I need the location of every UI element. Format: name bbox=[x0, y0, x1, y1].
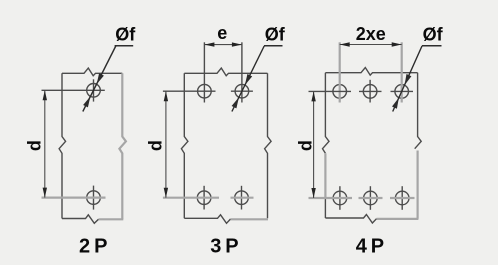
svg-text:Øf: Øf bbox=[265, 25, 286, 45]
4P top hole 3 crosshair bbox=[391, 90, 414, 92]
3P outline: top edge with break bbox=[184, 68, 267, 76]
4P outline: right edge lower part (light) bbox=[417, 151, 419, 219]
3P bottom-right hole bbox=[235, 186, 249, 210]
2P dimension d: label d bbox=[25, 140, 45, 151]
4P bottom hole 3 bbox=[395, 186, 409, 210]
3P leader underline bbox=[264, 45, 283, 47]
3P outline: bottom edge left part with break bbox=[184, 215, 230, 224]
3P dimension e: label e bbox=[217, 23, 227, 43]
4P bottom hole 2 crosshair (light) bbox=[359, 197, 383, 199]
3P dimension d: dimension line with arrows bbox=[164, 91, 168, 198]
4P top hole 1 bbox=[333, 85, 347, 99]
3P caption bbox=[210, 236, 238, 258]
3P dimension d: extension line top bbox=[163, 90, 216, 92]
4P caption bbox=[356, 236, 384, 258]
2P leader line to top hole bbox=[83, 46, 116, 112]
2P dimension d: dimension line with arrows bbox=[43, 90, 47, 197]
svg-text:2 P: 2 P bbox=[79, 236, 107, 258]
2P dimension d: extension line top bbox=[42, 89, 105, 91]
2P outline: top edge with break bbox=[62, 68, 122, 76]
3P leader line to top-right hole bbox=[232, 46, 265, 112]
2P caption bbox=[79, 236, 107, 258]
3P top-right hole crosshair bbox=[231, 90, 253, 92]
2P hole diameter label Of bbox=[115, 25, 136, 45]
3P top-right hole bbox=[235, 84, 249, 98]
4P outline: left edge upper part with break bbox=[323, 73, 330, 154]
2P outline: right edge (light) with break bbox=[119, 73, 126, 219]
svg-text:d: d bbox=[146, 140, 166, 151]
svg-text:3 P: 3 P bbox=[210, 236, 238, 258]
2P outline: bottom edge left part with break bbox=[62, 215, 99, 224]
4P dimension d: dimension line with arrows bbox=[311, 91, 315, 198]
4P leader line to top hole 3 bbox=[392, 46, 422, 112]
4P bottom hole 1 bbox=[333, 186, 347, 210]
2P outline: bottom edge right part (light) bbox=[99, 218, 124, 220]
2P outline: left edge with break bbox=[59, 73, 66, 218]
4P hole diameter label Of bbox=[423, 25, 444, 45]
3P bottom-left hole bbox=[197, 186, 211, 210]
3P dimension d: label d bbox=[146, 140, 166, 151]
4P top hole 2 crosshair bbox=[359, 90, 382, 92]
3P bottom-right hole crosshair (light) bbox=[231, 197, 254, 199]
4P outline: bottom edge right part (light) bbox=[377, 218, 419, 220]
4P leader underline bbox=[422, 45, 442, 47]
3P dimension e: dimension line with arrows bbox=[204, 42, 242, 46]
3P dimension d: extension line bottom (light) bbox=[163, 197, 219, 199]
4P outline: top edge with break bbox=[325, 68, 417, 76]
svg-text:2xe: 2xe bbox=[356, 24, 386, 44]
4P bottom hole 2 bbox=[364, 186, 378, 210]
3P hole diameter label Of bbox=[265, 25, 286, 45]
4P outline: left edge middle part (light) bbox=[324, 153, 326, 198]
4P top hole 2 bbox=[363, 80, 377, 103]
4P outline: left edge lower part bbox=[324, 199, 326, 219]
svg-text:d: d bbox=[25, 140, 45, 151]
4P dimension 2xe: extension lines (light) through holes 1 and 3 bbox=[340, 42, 402, 102]
3P dimension e: extension lines through top holes bbox=[204, 42, 242, 102]
2P leader underline bbox=[115, 45, 134, 47]
2P top hole bbox=[87, 79, 101, 101]
4P dimension d: label d bbox=[295, 140, 315, 151]
svg-text:4 P: 4 P bbox=[356, 236, 384, 258]
3P outline: bottom edge right part (light) bbox=[231, 218, 269, 220]
3P outline: right edge with break bbox=[265, 73, 272, 218]
4P dimension 2xe: label 2xe bbox=[356, 24, 386, 44]
4P dimension 2xe: dimension line with arrows bbox=[340, 42, 402, 46]
3P outline: left edge with break bbox=[181, 73, 188, 218]
3P top-left hole bbox=[198, 84, 212, 98]
2P bottom hole bbox=[87, 186, 101, 210]
svg-text:Øf: Øf bbox=[115, 25, 136, 45]
svg-text:e: e bbox=[217, 23, 227, 43]
svg-text:Øf: Øf bbox=[423, 25, 444, 45]
4P dimension d: extension line top bbox=[309, 90, 352, 92]
4P outline: bottom edge left part with break bbox=[325, 215, 376, 224]
2P dimension d: extension line bottom (light) bbox=[42, 197, 106, 199]
4P dimension d: extension line bottom (light) bbox=[309, 197, 353, 199]
4P bottom hole 3 crosshair (light) bbox=[390, 197, 415, 199]
4P outline: right edge upper part with break bbox=[415, 73, 422, 149]
svg-text:d: d bbox=[295, 140, 315, 151]
4P top hole 3 bbox=[395, 85, 409, 99]
